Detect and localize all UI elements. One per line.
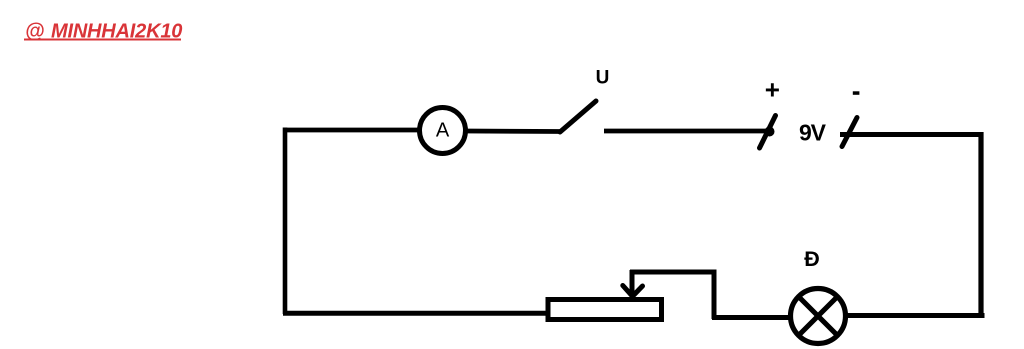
svg-text:U: U (596, 68, 610, 89)
wire bottom-left to rheostat (283, 311, 548, 316)
svg-text:Đ: Đ (804, 247, 820, 271)
rheostat body (548, 300, 662, 320)
switch arm (open) (560, 101, 596, 132)
svg-text:A: A (436, 120, 450, 142)
wire ammeter to switch (466, 129, 561, 134)
label + (765, 75, 780, 105)
switch label U (596, 68, 610, 89)
wire bottom right to lamp (846, 313, 985, 318)
label D lamp (804, 247, 820, 271)
svg-text:+: + (765, 75, 780, 105)
wire wiper branch horizontal (630, 270, 717, 275)
ammeter A (420, 108, 466, 154)
watermark label @ MINHHAI2K10 (24, 21, 182, 43)
wire switch to battery + (604, 127, 775, 137)
wire lamp left to wiper branch (712, 315, 792, 320)
lamp D circle with cross (791, 289, 846, 344)
label - (853, 91, 860, 95)
wire right vertical (978, 132, 983, 316)
battery negative terminal stroke (842, 118, 857, 147)
wire wiper branch vertical down (712, 270, 717, 319)
wire battery - to top right corner (840, 132, 984, 137)
wiper arrow onto rheostat (623, 270, 643, 296)
wire top-left to ammeter (283, 128, 419, 133)
wire left vertical (283, 128, 288, 315)
svg-text:9V: 9V (799, 120, 827, 146)
battery positive terminal stroke (760, 116, 776, 149)
label 9V (799, 120, 827, 146)
